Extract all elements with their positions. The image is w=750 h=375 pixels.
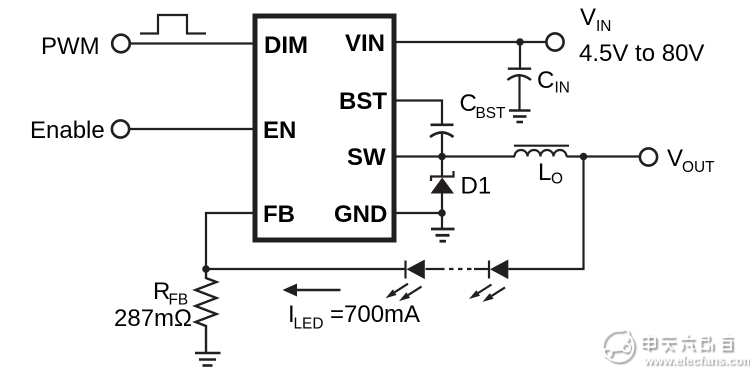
svg-text:LED: LED: [294, 316, 324, 333]
terminal PWM input circle: [112, 35, 130, 53]
svg-text:PWM: PWM: [41, 33, 100, 60]
svg-text:D1: D1: [461, 173, 492, 200]
svg-text:FB: FB: [263, 201, 295, 228]
capacitor CBST: [430, 125, 454, 157]
watermark text line 1: [642, 334, 734, 353]
LED D2: [386, 260, 425, 302]
svg-text:IN: IN: [555, 80, 570, 97]
wire LED string left: [206, 268, 406, 270]
svg-text:BST: BST: [476, 105, 507, 122]
terminal VOUT circle: [640, 148, 657, 165]
wire SW to inductor: [394, 155, 515, 157]
svg-text:C: C: [460, 90, 477, 117]
wire GND to ground: [394, 212, 442, 214]
wire VIN to input terminal: [394, 41, 547, 43]
svg-text:SW: SW: [347, 144, 386, 171]
diode D1 schottky: [431, 171, 454, 213]
svg-text:L: L: [538, 159, 551, 186]
wire LED string right to VOUT: [508, 157, 583, 270]
svg-text:V: V: [580, 4, 596, 31]
svg-text:V: V: [667, 145, 683, 172]
terminal VIN circle: [546, 33, 563, 50]
svg-text:OUT: OUT: [682, 159, 715, 176]
IC U1 body: [255, 16, 394, 240]
terminal Enable input circle: [112, 120, 129, 137]
wire PWM to DIM: [130, 42, 255, 44]
svg-text:VIN: VIN: [345, 30, 385, 57]
wire LED middle with dashes: [426, 268, 490, 270]
svg-text:Enable: Enable: [30, 117, 105, 144]
inductor LO: [514, 146, 569, 157]
pulse waveform symbol: [140, 15, 206, 34]
ground for RFB: [195, 353, 221, 366]
svg-text:4.5V to 80V: 4.5V to 80V: [579, 40, 704, 67]
wire BST to CBST: [394, 101, 442, 125]
wire Enable to EN: [129, 128, 255, 130]
svg-text:EN: EN: [263, 117, 296, 144]
watermark logo: [603, 330, 636, 364]
ground for CIN: [509, 111, 531, 123]
svg-text:IN: IN: [596, 18, 611, 35]
wire junction down: [441, 213, 443, 228]
resistor RFB: [196, 269, 217, 352]
arrow ILED current direction: [283, 284, 341, 297]
wire inductor to VOUT: [567, 155, 641, 157]
node VOUT junction: [580, 153, 588, 161]
capacitor CIN: [508, 69, 532, 110]
svg-text:C: C: [537, 67, 554, 94]
svg-text:BST: BST: [339, 88, 387, 115]
svg-text:www.elecfans.com: www.elecfans.com: [643, 354, 750, 368]
svg-text:O: O: [551, 171, 563, 188]
wire FB to feedback node: [206, 213, 255, 269]
wire VIN junction to CIN: [519, 42, 521, 68]
node GND junction: [438, 209, 446, 217]
watermark text line 2: [643, 354, 750, 370]
node SW junction: [438, 153, 446, 161]
svg-text:=700mA: =700mA: [330, 301, 420, 328]
svg-text:287mΩ: 287mΩ: [114, 305, 192, 332]
node VIN junction: [516, 38, 524, 46]
svg-text:DIM: DIM: [264, 32, 308, 59]
node FB junction: [202, 265, 210, 273]
svg-text:GND: GND: [334, 201, 387, 228]
ground for GND: [431, 229, 455, 241]
wire SW junction to diode: [441, 157, 443, 178]
LED D3: [469, 260, 508, 302]
